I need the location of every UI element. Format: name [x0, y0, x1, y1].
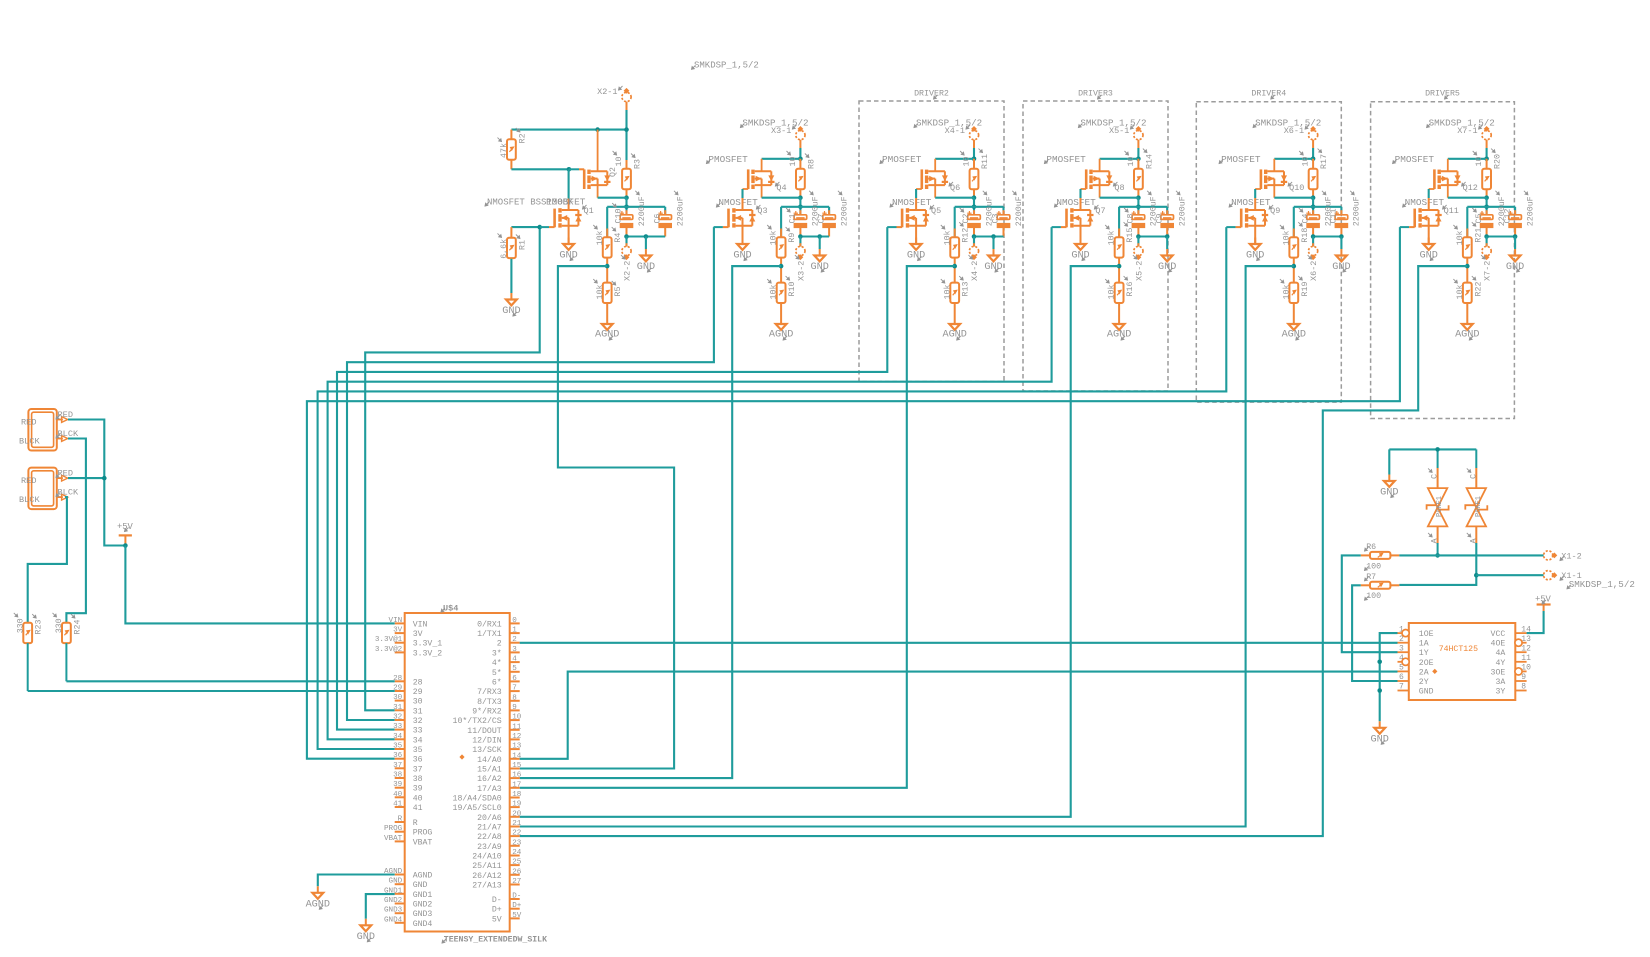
svg-text:R: R: [413, 819, 418, 828]
svg-text:36: 36: [413, 756, 423, 765]
svg-text:R3: R3: [634, 159, 643, 169]
svg-text:2200uF: 2200uF: [1353, 196, 1362, 226]
svg-text:31: 31: [393, 704, 403, 712]
svg-text:32: 32: [413, 717, 423, 726]
svg-text:PMOSFET: PMOSFET: [1046, 154, 1086, 165]
svg-text:X1-2: X1-2: [1561, 551, 1581, 561]
svg-text:GND: GND: [1420, 251, 1438, 262]
svg-text:330: 330: [55, 618, 64, 633]
svg-text:14/A0: 14/A0: [477, 755, 502, 765]
svg-text:C: C: [1468, 474, 1478, 479]
svg-text:GND: GND: [1419, 688, 1434, 697]
svg-text:33: 33: [413, 727, 423, 736]
svg-text:SMKDSP_1,5/2: SMKDSP_1,5/2: [1080, 118, 1146, 129]
svg-text:PMOSFET: PMOSFET: [1395, 154, 1435, 165]
svg-text:2Y: 2Y: [1419, 678, 1429, 687]
svg-text:AGND: AGND: [942, 330, 966, 341]
svg-text:R8: R8: [807, 159, 816, 169]
svg-text:10: 10: [615, 157, 624, 167]
svg-text:X6-2: X6-2: [1309, 261, 1319, 281]
svg-text:GND4: GND4: [413, 920, 433, 929]
svg-text:10k: 10k: [942, 230, 952, 245]
svg-text:PMOSFET: PMOSFET: [882, 154, 922, 165]
svg-text:19/A5/SCL0: 19/A5/SCL0: [453, 803, 502, 813]
svg-text:3.3V@2: 3.3V@2: [375, 646, 403, 654]
svg-text:SMKDSP_1,5/2: SMKDSP_1,5/2: [694, 60, 759, 70]
svg-text:GND: GND: [637, 262, 655, 273]
svg-text:3V: 3V: [393, 627, 403, 635]
svg-text:A: A: [1468, 538, 1478, 544]
svg-text:3V: 3V: [413, 630, 423, 639]
svg-text:34: 34: [413, 736, 423, 745]
svg-text:GND: GND: [984, 262, 1002, 273]
svg-text:10k: 10k: [942, 285, 952, 300]
svg-text:12: 12: [512, 733, 522, 741]
svg-text:C3: C3: [992, 214, 1001, 224]
svg-text:12: 12: [1521, 644, 1531, 653]
svg-text:VCC: VCC: [1491, 630, 1506, 639]
svg-text:22: 22: [512, 830, 522, 838]
svg-text:RED: RED: [21, 418, 36, 428]
svg-text:2: 2: [512, 636, 517, 644]
svg-text:R12: R12: [962, 228, 971, 243]
svg-text:Q2: Q2: [609, 167, 618, 177]
svg-text:38: 38: [393, 772, 403, 780]
svg-text:9: 9: [512, 704, 517, 712]
svg-text:10k: 10k: [1455, 230, 1465, 245]
svg-text:33: 33: [393, 723, 403, 731]
svg-text:R15: R15: [1126, 228, 1135, 243]
svg-text:R21: R21: [1474, 228, 1483, 243]
svg-text:P6KE1: P6KE1: [1475, 496, 1483, 517]
svg-text:10: 10: [1475, 157, 1484, 167]
svg-text:BLCK: BLCK: [19, 495, 40, 505]
svg-text:7/RX3: 7/RX3: [477, 687, 502, 697]
svg-text:8: 8: [1521, 683, 1526, 692]
svg-text:X2-1: X2-1: [597, 87, 617, 97]
svg-text:SMKDSP_1,5/2: SMKDSP_1,5/2: [1429, 118, 1495, 129]
svg-text:P6KE1: P6KE1: [1436, 496, 1444, 517]
svg-text:C12: C12: [1503, 209, 1512, 224]
svg-text:R14: R14: [1145, 154, 1154, 169]
svg-text:GND: GND: [357, 932, 375, 943]
svg-text:22/A8: 22/A8: [477, 832, 502, 842]
svg-text:GND: GND: [1246, 251, 1264, 262]
svg-text:9*/RX2: 9*/RX2: [472, 706, 502, 716]
svg-text:U$4: U$4: [443, 604, 458, 614]
svg-text:5V: 5V: [512, 912, 522, 920]
svg-text:C4: C4: [1301, 214, 1310, 224]
svg-text:X3-2: X3-2: [796, 261, 806, 281]
svg-text:4: 4: [512, 656, 517, 664]
svg-text:GND: GND: [1506, 262, 1524, 273]
svg-text:24: 24: [512, 849, 522, 857]
svg-text:C9: C9: [1155, 214, 1164, 224]
svg-text:AGND: AGND: [1282, 330, 1306, 341]
svg-text:GND1: GND1: [413, 891, 433, 900]
svg-text:SMKDSP_1,5/2: SMKDSP_1,5/2: [916, 118, 982, 129]
svg-text:X7-2: X7-2: [1483, 261, 1493, 281]
svg-text:R23: R23: [35, 620, 44, 635]
svg-text:2200uF: 2200uF: [677, 196, 686, 226]
svg-text:GND: GND: [1332, 262, 1350, 273]
svg-text:DRIVER4: DRIVER4: [1251, 90, 1286, 99]
svg-text:10k: 10k: [1281, 230, 1291, 245]
svg-text:PMOSFET: PMOSFET: [1221, 154, 1261, 165]
svg-text:DRIVER5: DRIVER5: [1425, 90, 1460, 99]
svg-text:26/A12: 26/A12: [472, 871, 502, 881]
svg-text:AGND: AGND: [413, 872, 433, 881]
svg-text:2200uF: 2200uF: [638, 196, 647, 226]
svg-text:C6: C6: [653, 214, 662, 224]
svg-text:11/DOUT: 11/DOUT: [467, 726, 501, 736]
svg-text:NMOSFET: NMOSFET: [718, 197, 758, 208]
svg-text:1: 1: [512, 627, 517, 635]
svg-text:21: 21: [512, 820, 522, 828]
svg-text:VBAT: VBAT: [384, 835, 403, 843]
svg-text:10*/TX2/CS: 10*/TX2/CS: [453, 716, 502, 726]
svg-text:25: 25: [512, 859, 522, 867]
svg-text:2A: 2A: [1419, 668, 1429, 677]
svg-text:20: 20: [512, 810, 522, 818]
svg-text:7: 7: [512, 685, 517, 693]
svg-text:VBAT: VBAT: [413, 838, 433, 847]
svg-text:NMOSFET: NMOSFET: [1405, 197, 1445, 208]
svg-text:R19: R19: [1301, 282, 1310, 297]
svg-text:2200uF: 2200uF: [1015, 196, 1024, 226]
svg-text:15/A1: 15/A1: [477, 765, 502, 775]
svg-text:31: 31: [413, 707, 423, 716]
svg-text:4Y: 4Y: [1495, 659, 1505, 668]
svg-text:18/A4/SDA0: 18/A4/SDA0: [453, 794, 502, 804]
svg-text:6*: 6*: [492, 677, 502, 687]
svg-text:20/A6: 20/A6: [477, 813, 502, 823]
svg-text:GND3: GND3: [384, 907, 403, 915]
svg-text:35: 35: [393, 743, 403, 751]
svg-text:C5: C5: [1475, 214, 1484, 224]
svg-text:R1: R1: [518, 240, 527, 250]
svg-text:35: 35: [413, 746, 423, 755]
svg-text:2: 2: [497, 640, 502, 649]
svg-text:10k: 10k: [769, 230, 779, 245]
svg-text:R: R: [398, 816, 403, 824]
svg-text:29: 29: [413, 688, 423, 697]
svg-text:39: 39: [413, 785, 423, 794]
svg-text:X2-2: X2-2: [623, 261, 633, 281]
svg-text:1OE: 1OE: [1419, 630, 1434, 639]
svg-text:10: 10: [963, 157, 972, 167]
svg-text:5: 5: [512, 665, 517, 673]
svg-text:PMOSFET: PMOSFET: [546, 196, 586, 207]
svg-text:NMOSFET: NMOSFET: [1056, 197, 1096, 208]
svg-text:GND: GND: [413, 881, 428, 890]
svg-text:2OE: 2OE: [1419, 659, 1434, 668]
svg-text:GND: GND: [1158, 262, 1176, 273]
svg-text:5V: 5V: [492, 915, 502, 924]
svg-text:17/A3: 17/A3: [477, 784, 502, 794]
svg-text:R5: R5: [614, 287, 623, 297]
svg-text:3*: 3*: [492, 648, 502, 658]
svg-text:A: A: [1430, 538, 1440, 544]
svg-text:C11: C11: [1330, 209, 1339, 224]
svg-text:11: 11: [1521, 654, 1531, 663]
svg-text:36: 36: [393, 752, 403, 760]
svg-text:10k: 10k: [1107, 230, 1117, 245]
svg-text:2200uF: 2200uF: [1526, 196, 1535, 226]
svg-text:10: 10: [1127, 157, 1136, 167]
svg-text:30: 30: [413, 698, 423, 707]
svg-text:BLCK: BLCK: [58, 488, 79, 498]
svg-text:R10: R10: [788, 282, 797, 297]
svg-text:NMOSFET: NMOSFET: [1231, 197, 1271, 208]
svg-text:3.3V@1: 3.3V@1: [375, 636, 403, 644]
svg-text:7: 7: [1399, 683, 1404, 692]
svg-text:74HCT125: 74HCT125: [1439, 645, 1478, 654]
svg-text:41: 41: [393, 801, 403, 809]
svg-text:D-: D-: [512, 893, 521, 901]
svg-text:DRIVER3: DRIVER3: [1078, 90, 1113, 99]
svg-text:AGND: AGND: [1107, 330, 1131, 341]
svg-text:6: 6: [512, 675, 517, 683]
svg-text:DRIVER2: DRIVER2: [914, 90, 949, 99]
svg-text:4A: 4A: [1495, 649, 1505, 658]
svg-text:13: 13: [512, 743, 522, 751]
svg-text:18: 18: [512, 791, 522, 799]
svg-text:40: 40: [393, 791, 403, 799]
svg-text:Q11: Q11: [1444, 206, 1459, 216]
svg-text:Q12: Q12: [1463, 183, 1478, 193]
svg-text:R2: R2: [518, 133, 527, 143]
svg-text:10k: 10k: [1281, 285, 1291, 300]
svg-text:10: 10: [789, 157, 798, 167]
svg-text:D-: D-: [492, 896, 502, 905]
svg-text:8: 8: [512, 694, 517, 702]
svg-text:23: 23: [512, 839, 522, 847]
svg-text:VIN: VIN: [413, 620, 428, 629]
svg-text:PMOSFET: PMOSFET: [708, 154, 748, 165]
svg-text:PROG: PROG: [413, 829, 433, 838]
svg-text:0: 0: [512, 617, 517, 625]
svg-text:2200uF: 2200uF: [840, 196, 849, 226]
svg-text:AGND: AGND: [1455, 330, 1479, 341]
svg-text:3.3V_2: 3.3V_2: [413, 649, 443, 658]
svg-text:R13: R13: [962, 282, 971, 297]
svg-text:1/TX1: 1/TX1: [477, 629, 502, 639]
svg-text:AGND: AGND: [595, 330, 619, 341]
svg-text:C7: C7: [817, 214, 826, 224]
svg-text:GND2: GND2: [384, 897, 403, 905]
svg-text:10k: 10k: [769, 285, 779, 300]
svg-text:30: 30: [393, 694, 403, 702]
svg-text:10k: 10k: [595, 230, 605, 245]
svg-text:X4-2: X4-2: [970, 261, 980, 281]
svg-text:1A: 1A: [1419, 640, 1429, 649]
svg-text:R4: R4: [614, 233, 623, 243]
svg-text:GND4: GND4: [384, 916, 403, 924]
svg-text:TEENSY_EXTENDEDW_SILK: TEENSY_EXTENDEDW_SILK: [444, 936, 547, 945]
svg-text:C8: C8: [1127, 214, 1136, 224]
svg-text:10: 10: [512, 714, 522, 722]
svg-text:32: 32: [393, 714, 403, 722]
svg-text:RED: RED: [21, 476, 36, 486]
svg-text:GND3: GND3: [413, 910, 433, 919]
svg-text:NMOSFET: NMOSFET: [892, 197, 932, 208]
svg-text:11: 11: [512, 723, 522, 731]
svg-text:GND2: GND2: [413, 901, 433, 910]
svg-text:1Y: 1Y: [1419, 649, 1429, 658]
svg-text:16/A2: 16/A2: [477, 774, 502, 784]
svg-text:16: 16: [512, 772, 522, 780]
svg-text:10k: 10k: [1107, 285, 1117, 300]
svg-text:10: 10: [1302, 157, 1311, 167]
svg-text:21/A7: 21/A7: [477, 823, 502, 833]
svg-text:SMKDSP_1,5/2: SMKDSP_1,5/2: [1569, 579, 1635, 590]
svg-text:R16: R16: [1126, 282, 1135, 297]
svg-text:9: 9: [1521, 673, 1526, 682]
svg-text:37: 37: [413, 765, 423, 774]
svg-text:GND: GND: [1371, 734, 1389, 745]
svg-text:GND: GND: [389, 878, 403, 886]
svg-text:AGND: AGND: [306, 899, 330, 910]
svg-text:R9: R9: [788, 233, 797, 243]
svg-text:38: 38: [413, 775, 423, 784]
svg-text:3Y: 3Y: [1495, 688, 1505, 697]
svg-text:27: 27: [512, 878, 521, 886]
svg-text:C10: C10: [615, 209, 624, 224]
svg-text:13/SCK: 13/SCK: [472, 745, 502, 755]
svg-text:3OE: 3OE: [1491, 668, 1506, 677]
svg-text:34: 34: [393, 733, 403, 741]
svg-text:SMKDSP_1,5/2: SMKDSP_1,5/2: [1255, 118, 1321, 129]
svg-text:24/A10: 24/A10: [472, 852, 502, 862]
svg-text:D+: D+: [512, 902, 522, 910]
svg-text:15: 15: [512, 762, 522, 770]
svg-text:25/A11: 25/A11: [472, 861, 502, 871]
svg-text:23/A9: 23/A9: [477, 842, 502, 852]
svg-text:R17: R17: [1320, 154, 1329, 169]
svg-text:3A: 3A: [1495, 678, 1505, 687]
svg-text:C2: C2: [962, 214, 971, 224]
svg-text:4OE: 4OE: [1491, 640, 1506, 649]
svg-text:AGND: AGND: [769, 330, 793, 341]
svg-text:Q10: Q10: [1289, 183, 1304, 193]
svg-text:10k: 10k: [595, 285, 605, 300]
svg-text:R11: R11: [981, 154, 990, 169]
svg-text:27/A13: 27/A13: [472, 881, 502, 891]
svg-text:GND: GND: [811, 262, 829, 273]
svg-text:8/TX3: 8/TX3: [477, 697, 502, 707]
svg-text:3: 3: [1399, 644, 1404, 653]
svg-text:GND: GND: [907, 251, 925, 262]
svg-text:GND: GND: [559, 251, 577, 262]
svg-text:28: 28: [413, 678, 423, 687]
svg-text:10k: 10k: [1455, 285, 1465, 300]
svg-text:6: 6: [1399, 673, 1404, 682]
svg-text:39: 39: [393, 781, 403, 789]
svg-text:X5-2: X5-2: [1134, 261, 1144, 281]
svg-text:D+: D+: [492, 906, 502, 915]
svg-text:41: 41: [413, 804, 423, 813]
svg-text:40: 40: [413, 794, 423, 803]
svg-text:PROG: PROG: [384, 825, 403, 833]
svg-text:GND: GND: [1380, 488, 1398, 499]
svg-text:R20: R20: [1494, 154, 1503, 169]
svg-text:3.3V_1: 3.3V_1: [413, 640, 443, 649]
svg-text:0/RX1: 0/RX1: [477, 619, 502, 629]
svg-text:37: 37: [393, 762, 402, 770]
svg-text:26: 26: [512, 868, 522, 876]
svg-text:GND: GND: [502, 306, 520, 317]
svg-text:6,6k: 6,6k: [499, 239, 509, 259]
svg-text:GND: GND: [1071, 251, 1089, 262]
svg-text:R22: R22: [1474, 282, 1483, 297]
svg-text:GND: GND: [733, 251, 751, 262]
svg-text:4*: 4*: [492, 658, 502, 668]
svg-text:R18: R18: [1301, 228, 1310, 243]
svg-text:C: C: [1430, 474, 1440, 479]
svg-text:12/DIN: 12/DIN: [472, 735, 502, 745]
svg-text:SMKDSP_1,5/2: SMKDSP_1,5/2: [742, 118, 808, 129]
svg-text:R24: R24: [73, 620, 82, 635]
svg-text:17: 17: [512, 781, 521, 789]
svg-text:5*: 5*: [492, 668, 502, 678]
svg-text:47k: 47k: [499, 143, 509, 158]
svg-text:330: 330: [16, 618, 25, 633]
svg-text:BLCK: BLCK: [19, 437, 40, 447]
svg-text:3: 3: [512, 646, 517, 654]
svg-text:C1: C1: [789, 214, 798, 224]
svg-text:2200uF: 2200uF: [1179, 196, 1188, 226]
svg-text:19: 19: [512, 801, 522, 809]
